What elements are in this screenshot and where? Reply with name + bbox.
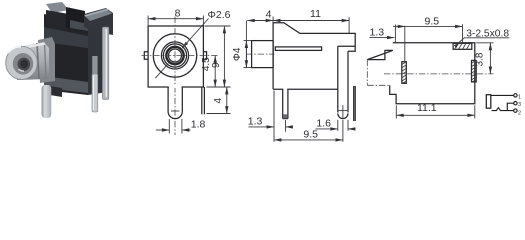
front view ring r13.6 <box>161 42 188 69</box>
dimension 1.8 ext lines <box>168 119 170 134</box>
svg-text:11: 11 <box>310 8 321 20</box>
front view pin tip crosshair <box>171 110 180 112</box>
photo: right pin front <box>92 74 98 112</box>
photo: barrel collar <box>38 37 55 83</box>
front view left tab <box>144 52 148 59</box>
dimension 1.3 arrows <box>249 126 275 128</box>
svg-text:Φ2.6: Φ2.6 <box>208 9 231 21</box>
dimension 4.5 line <box>214 56 216 88</box>
leader phi2.6 <box>182 19 208 49</box>
bottom ext lines view2 <box>273 91 275 142</box>
front view body <box>148 26 203 87</box>
top view left pin (hatched) <box>402 62 407 84</box>
dim 9.5 ext lines <box>394 25 396 44</box>
dimension 11.1 line <box>396 114 475 116</box>
svg-text:1: 1 <box>518 94 521 100</box>
photo: right prong block <box>84 8 113 35</box>
side view back pin left edge <box>337 46 339 112</box>
side view back pin rounded tip <box>338 113 348 118</box>
right ext line bottom <box>207 86 231 88</box>
dim 3.8 ext line <box>476 42 493 44</box>
svg-text:1.8: 1.8 <box>191 118 206 130</box>
svg-text:4: 4 <box>266 9 272 21</box>
svg-text:9.5: 9.5 <box>303 129 318 141</box>
schematic sleeve rect <box>486 95 491 109</box>
dimension 8 ext lines <box>147 16 149 26</box>
dimension 8 line <box>148 18 203 20</box>
photo: body right side face <box>88 24 107 95</box>
schematic bottom wire with switch caret <box>492 108 514 111</box>
front view outer circle <box>153 34 196 77</box>
front view ring r11.6 <box>163 44 186 67</box>
photo: barrel hole <box>18 58 31 71</box>
dimension 9 line <box>223 26 225 87</box>
photo: body front dark face <box>44 14 88 95</box>
right ext line pin bottom <box>207 113 231 115</box>
front view centre pin <box>168 87 182 119</box>
photo: right prong top highlight <box>85 10 108 17</box>
photo: right prong top facet <box>84 9 112 22</box>
svg-text:3.8: 3.8 <box>475 52 486 66</box>
svg-text:9.5: 9.5 <box>424 16 439 28</box>
front view centre pin mask <box>169 86 182 88</box>
svg-text:1.3: 1.3 <box>248 115 263 127</box>
side view front pin <box>282 89 284 118</box>
front view right tab <box>203 52 206 59</box>
photo: dark foot <box>44 85 62 97</box>
photo: barrel top highlight <box>17 44 45 50</box>
side view barrel <box>252 41 274 68</box>
schematic pin2 circle <box>514 109 517 112</box>
dimension 1.6 arrows <box>316 128 338 130</box>
svg-text:4: 4 <box>213 97 224 103</box>
front view thick dark ring <box>166 47 183 64</box>
top view right pin (hatched) <box>472 60 477 82</box>
photo: left prong top <box>46 2 69 13</box>
photo: barrel hole glint <box>19 69 25 71</box>
side view inner slot <box>275 47 321 51</box>
photo: base strip <box>44 76 88 93</box>
photo: body upper panel <box>44 27 88 48</box>
side view barrel centerline <box>246 53 275 55</box>
schematic pin1 circle <box>514 94 517 97</box>
front view vertical centerline <box>174 17 176 136</box>
side view back pin crosshair <box>339 110 348 112</box>
dimension 9.5 top line <box>393 25 405 27</box>
top view outline <box>367 43 475 104</box>
svg-text:3: 3 <box>518 102 521 108</box>
top view upper pin (hatched) <box>453 43 472 49</box>
schematic top wire <box>491 94 514 96</box>
dimension 4 line <box>226 87 228 114</box>
photo: barrel face outer <box>6 46 38 79</box>
dimension 4 (top) line <box>247 20 273 22</box>
side view body outline <box>273 23 355 90</box>
photo: barrel hole core <box>20 60 28 69</box>
photo: barrel cylinder side <box>14 42 49 80</box>
dimension phi4 line <box>245 21 247 68</box>
dimension 9.5 line <box>274 139 343 141</box>
photo: barrel face rim highlight <box>8 46 21 53</box>
svg-text:2: 2 <box>518 110 521 116</box>
svg-text:9: 9 <box>211 62 222 68</box>
dimension 4/11 ext lines <box>272 17 274 23</box>
svg-text:8: 8 <box>175 7 181 19</box>
svg-text:1.3: 1.3 <box>370 27 385 39</box>
photo: latch arm in slot <box>70 20 88 31</box>
schematic pin3 branch <box>507 103 513 110</box>
top view centerline <box>384 73 494 75</box>
svg-text:Φ4: Φ4 <box>232 47 243 61</box>
side view front pin mask <box>283 88 287 90</box>
right ext line top <box>205 25 231 27</box>
front view horizontal centerline <box>142 55 219 57</box>
dim 11.1 ext lines <box>395 105 397 118</box>
side view pin slot line <box>338 45 355 47</box>
photo: barrel ridges <box>37 43 39 79</box>
phi4 ext stubs <box>244 40 252 42</box>
front view inner hole <box>169 49 182 62</box>
front view side pin <box>201 87 203 114</box>
photo: latch slot <box>66 7 85 31</box>
photo: left prong front <box>46 10 69 31</box>
side view front pin dark tip <box>283 114 288 118</box>
dimension 1.8 arrows <box>156 129 170 131</box>
dimension 3.8 line <box>489 43 491 74</box>
svg-text:1.6: 1.6 <box>316 117 331 129</box>
side view back pin right edge <box>347 51 349 112</box>
top view phantom left edge <box>366 60 368 86</box>
photo: right pin back <box>102 27 108 100</box>
dimension 11 line <box>273 20 349 22</box>
schematic pin3 circle <box>514 102 517 105</box>
photo: right pin front upper <box>92 56 97 76</box>
side view hidden side pin <box>353 86 355 121</box>
photo: bottom pin <box>42 85 52 118</box>
svg-text:11.1: 11.1 <box>417 102 437 114</box>
dimension 1.3 leader <box>370 37 395 39</box>
photo: barrel inner ring <box>13 53 33 75</box>
label 3-2.5x0.8 leader <box>455 38 509 46</box>
